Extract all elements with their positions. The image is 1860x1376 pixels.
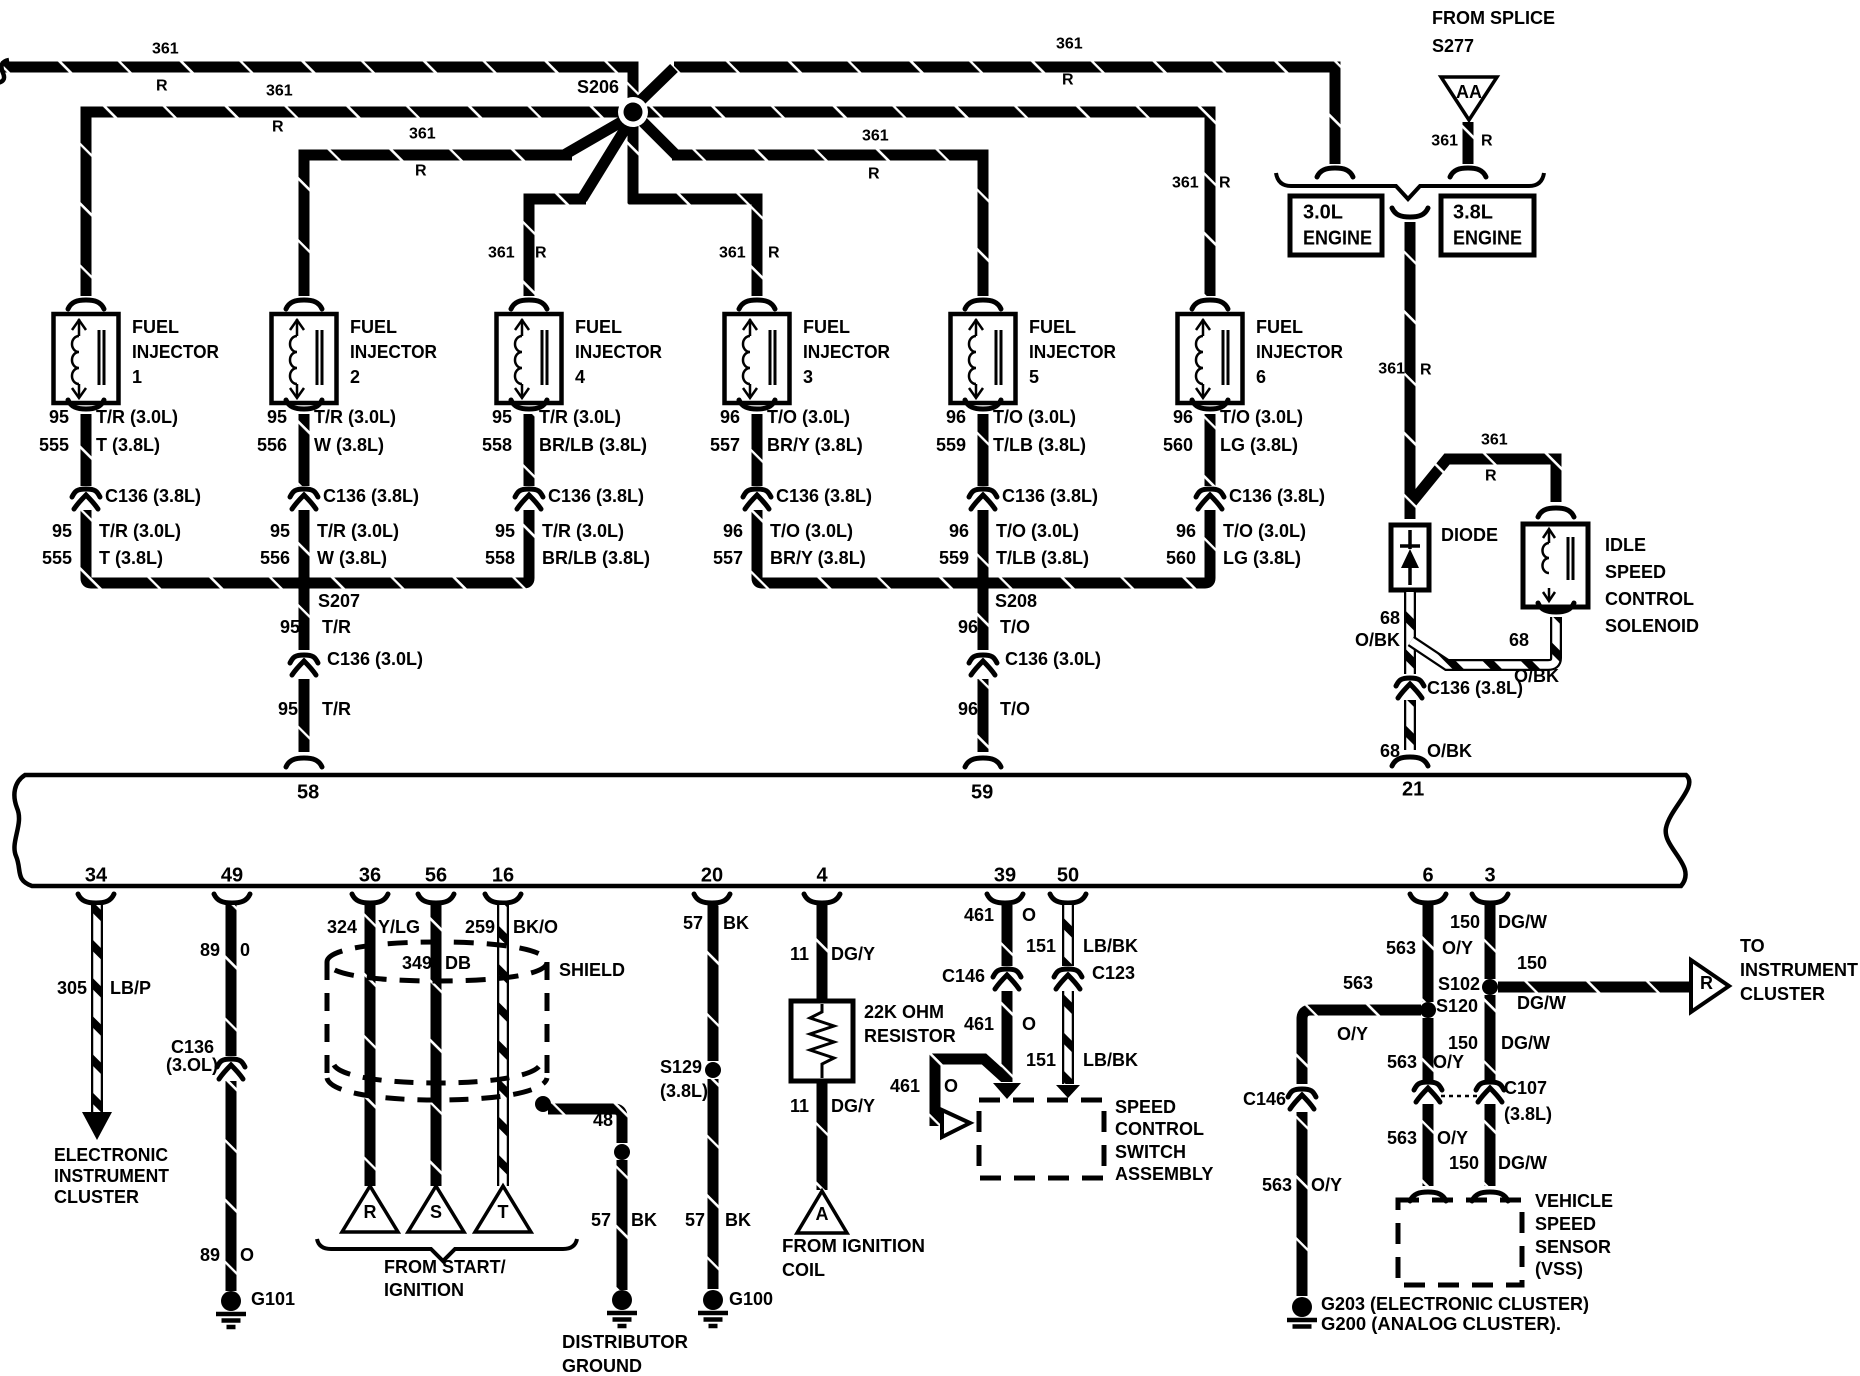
svg-text:INJECTOR: INJECTOR: [575, 342, 662, 362]
svg-text:C107: C107: [1504, 1078, 1547, 1098]
svg-text:T/LB (3.8L): T/LB (3.8L): [996, 548, 1089, 568]
svg-text:556: 556: [257, 435, 287, 455]
svg-text:FUEL: FUEL: [803, 317, 850, 337]
svg-text:16: 16: [492, 864, 514, 886]
svg-text:4: 4: [575, 367, 585, 387]
svg-text:SENSOR: SENSOR: [1535, 1237, 1611, 1257]
svg-text:BR/LB (3.8L): BR/LB (3.8L): [539, 435, 647, 455]
svg-text:T/O (3.0L): T/O (3.0L): [1223, 521, 1306, 541]
svg-text:S129: S129: [660, 1057, 702, 1077]
svg-text:68: 68: [1380, 741, 1400, 761]
svg-text:INJECTOR: INJECTOR: [1256, 342, 1343, 362]
svg-text:BR/LB (3.8L): BR/LB (3.8L): [542, 548, 650, 568]
svg-text:BK: BK: [725, 1210, 751, 1230]
svg-text:95: 95: [270, 521, 290, 541]
svg-text:559: 559: [939, 548, 969, 568]
svg-text:361: 361: [1431, 133, 1458, 150]
svg-text:95: 95: [278, 699, 298, 719]
svg-text:361: 361: [862, 128, 889, 145]
svg-text:96: 96: [958, 699, 978, 719]
svg-text:1: 1: [132, 367, 142, 387]
svg-text:36: 36: [359, 864, 381, 886]
svg-text:C146: C146: [1243, 1089, 1286, 1109]
svg-text:T/O (3.0L): T/O (3.0L): [993, 407, 1076, 427]
svg-text:FUEL: FUEL: [1029, 317, 1076, 337]
svg-text:95: 95: [49, 407, 69, 427]
svg-text:R: R: [868, 166, 880, 183]
svg-text:563: 563: [1262, 1175, 1292, 1195]
svg-text:FROM START/: FROM START/: [384, 1257, 506, 1277]
svg-text:150: 150: [1517, 953, 1547, 973]
svg-text:3.0L: 3.0L: [1303, 201, 1343, 223]
svg-text:48: 48: [593, 1110, 613, 1130]
svg-text:361: 361: [1056, 36, 1083, 53]
svg-text:LB/P: LB/P: [110, 978, 151, 998]
svg-text:56: 56: [425, 864, 447, 886]
svg-text:G101: G101: [251, 1289, 295, 1309]
svg-text:57: 57: [591, 1210, 611, 1230]
svg-text:O/Y: O/Y: [1337, 1024, 1368, 1044]
svg-text:557: 557: [713, 548, 743, 568]
svg-text:DG/Y: DG/Y: [831, 944, 875, 964]
svg-text:DB: DB: [445, 953, 471, 973]
svg-text:559: 559: [936, 435, 966, 455]
svg-text:DG/W: DG/W: [1517, 993, 1566, 1013]
svg-text:(VSS): (VSS): [1535, 1259, 1583, 1279]
svg-text:R: R: [272, 119, 284, 136]
svg-text:DIODE: DIODE: [1441, 525, 1498, 545]
svg-text:G203 (ELECTRONIC CLUSTER): G203 (ELECTRONIC CLUSTER): [1321, 1294, 1589, 1314]
svg-text:558: 558: [482, 435, 512, 455]
svg-text:A: A: [816, 1204, 829, 1224]
svg-text:96: 96: [723, 521, 743, 541]
svg-text:0: 0: [240, 940, 250, 960]
svg-text:59: 59: [971, 781, 993, 803]
svg-text:20: 20: [701, 864, 723, 886]
svg-text:VEHICLE: VEHICLE: [1535, 1191, 1613, 1211]
svg-text:R: R: [1485, 468, 1497, 485]
svg-text:INJECTOR: INJECTOR: [132, 342, 219, 362]
svg-text:T/O: T/O: [1000, 617, 1030, 637]
svg-text:CLUSTER: CLUSTER: [1740, 984, 1825, 1004]
svg-text:INJECTOR: INJECTOR: [1029, 342, 1116, 362]
svg-text:2: 2: [350, 367, 360, 387]
svg-text:INJECTOR: INJECTOR: [350, 342, 437, 362]
svg-text:O: O: [1022, 1014, 1036, 1034]
svg-text:(3.8L): (3.8L): [1504, 1104, 1552, 1124]
svg-text:LG (3.8L): LG (3.8L): [1223, 548, 1301, 568]
svg-text:T/O (3.0L): T/O (3.0L): [767, 407, 850, 427]
svg-text:R: R: [364, 1202, 377, 1222]
svg-text:O/BK: O/BK: [1514, 666, 1559, 686]
svg-text:57: 57: [683, 913, 703, 933]
svg-text:(3.8L): (3.8L): [660, 1081, 708, 1101]
svg-text:G200 (ANALOG CLUSTER).: G200 (ANALOG CLUSTER).: [1321, 1314, 1561, 1334]
svg-text:68: 68: [1509, 630, 1529, 650]
svg-text:O/Y: O/Y: [1442, 938, 1473, 958]
svg-text:R: R: [1420, 362, 1432, 379]
svg-text:361: 361: [1172, 175, 1199, 192]
svg-text:CLUSTER: CLUSTER: [54, 1187, 139, 1207]
svg-text:T/O: T/O: [1000, 699, 1030, 719]
svg-text:ENGINE: ENGINE: [1303, 227, 1372, 249]
svg-text:11: 11: [790, 944, 809, 964]
svg-text:S208: S208: [995, 591, 1037, 611]
svg-text:563: 563: [1343, 973, 1373, 993]
svg-text:R: R: [535, 245, 547, 262]
svg-text:T/R (3.0L): T/R (3.0L): [539, 407, 621, 427]
svg-text:CONTROL: CONTROL: [1115, 1119, 1204, 1139]
svg-text:SPEED: SPEED: [1535, 1214, 1596, 1234]
svg-text:BR/Y (3.8L): BR/Y (3.8L): [770, 548, 866, 568]
svg-text:ASSEMBLY: ASSEMBLY: [1115, 1164, 1213, 1184]
svg-text:T/O (3.0L): T/O (3.0L): [996, 521, 1079, 541]
svg-text:FROM SPLICE: FROM SPLICE: [1432, 8, 1555, 28]
svg-text:CONTROL: CONTROL: [1605, 589, 1694, 609]
svg-text:LG (3.8L): LG (3.8L): [1220, 435, 1298, 455]
svg-text:FUEL: FUEL: [132, 317, 179, 337]
svg-text:SWITCH: SWITCH: [1115, 1142, 1186, 1162]
svg-text:O/Y: O/Y: [1437, 1128, 1468, 1148]
svg-text:461: 461: [964, 905, 994, 925]
svg-text:563: 563: [1387, 1128, 1417, 1148]
svg-text:50: 50: [1057, 864, 1079, 886]
svg-text:INJECTOR: INJECTOR: [803, 342, 890, 362]
svg-text:560: 560: [1163, 435, 1193, 455]
svg-text:563: 563: [1386, 938, 1416, 958]
svg-text:T/R (3.0L): T/R (3.0L): [317, 521, 399, 541]
svg-text:G100: G100: [729, 1289, 773, 1309]
svg-text:AA: AA: [1456, 82, 1482, 102]
svg-text:461: 461: [890, 1076, 920, 1096]
svg-text:49: 49: [221, 864, 243, 886]
svg-text:95: 95: [280, 617, 300, 637]
svg-text:SOLENOID: SOLENOID: [1605, 616, 1699, 636]
svg-text:RESISTOR: RESISTOR: [864, 1026, 956, 1046]
svg-text:DG/W: DG/W: [1498, 1153, 1547, 1173]
svg-text:DG/Y: DG/Y: [831, 1096, 875, 1116]
svg-text:SHIELD: SHIELD: [559, 960, 625, 980]
svg-text:C136 (3.8L): C136 (3.8L): [1229, 486, 1325, 506]
svg-text:555: 555: [42, 548, 72, 568]
svg-text:89: 89: [200, 1245, 220, 1265]
svg-text:151: 151: [1026, 936, 1056, 956]
svg-text:DG/W: DG/W: [1498, 912, 1547, 932]
svg-text:C136 (3.8L): C136 (3.8L): [105, 486, 201, 506]
svg-text:O/Y: O/Y: [1433, 1052, 1464, 1072]
svg-text:S277: S277: [1432, 36, 1474, 56]
svg-text:W (3.8L): W (3.8L): [317, 548, 387, 568]
svg-text:ELECTRONIC: ELECTRONIC: [54, 1145, 168, 1165]
svg-text:C136 (3.8L): C136 (3.8L): [1002, 486, 1098, 506]
svg-text:C136 (3.8L): C136 (3.8L): [776, 486, 872, 506]
svg-text:T (3.8L): T (3.8L): [99, 548, 163, 568]
svg-text:O: O: [1022, 905, 1036, 925]
svg-text:C146: C146: [942, 966, 985, 986]
svg-text:LB/BK: LB/BK: [1083, 936, 1138, 956]
svg-text:S206: S206: [577, 77, 619, 97]
svg-text:IDLE: IDLE: [1605, 535, 1646, 555]
svg-text:R: R: [415, 163, 427, 180]
svg-text:O: O: [944, 1076, 958, 1096]
svg-text:361: 361: [152, 41, 179, 58]
svg-text:R: R: [156, 78, 168, 95]
svg-text:558: 558: [485, 548, 515, 568]
svg-text:95: 95: [267, 407, 287, 427]
svg-text:57: 57: [685, 1210, 705, 1230]
svg-text:R: R: [768, 245, 780, 262]
svg-text:461: 461: [964, 1014, 994, 1034]
svg-text:ENGINE: ENGINE: [1453, 227, 1522, 249]
svg-text:21: 21: [1402, 778, 1424, 800]
svg-text:96: 96: [949, 521, 969, 541]
svg-text:T: T: [498, 1202, 509, 1222]
svg-text:556: 556: [260, 548, 290, 568]
svg-text:INSTRUMENT: INSTRUMENT: [54, 1166, 169, 1186]
svg-text:T/O (3.0L): T/O (3.0L): [1220, 407, 1303, 427]
svg-text:T/R (3.0L): T/R (3.0L): [96, 407, 178, 427]
svg-text:3: 3: [1484, 864, 1495, 886]
svg-text:S120: S120: [1436, 996, 1478, 1016]
svg-text:LB/BK: LB/BK: [1083, 1050, 1138, 1070]
svg-text:T/R (3.0L): T/R (3.0L): [314, 407, 396, 427]
svg-text:324: 324: [327, 917, 357, 937]
svg-text:DG/W: DG/W: [1501, 1033, 1550, 1053]
svg-text:361: 361: [1378, 361, 1405, 378]
svg-text:S: S: [430, 1202, 442, 1222]
svg-text:4: 4: [816, 864, 828, 886]
svg-text:96: 96: [1173, 407, 1193, 427]
svg-text:89: 89: [200, 940, 220, 960]
svg-text:563: 563: [1387, 1052, 1417, 1072]
svg-text:22K OHM: 22K OHM: [864, 1002, 944, 1022]
svg-text:5: 5: [1029, 367, 1039, 387]
svg-text:C136: C136: [171, 1037, 214, 1057]
svg-text:361: 361: [266, 83, 293, 100]
svg-text:34: 34: [85, 864, 108, 886]
svg-text:560: 560: [1166, 548, 1196, 568]
svg-text:349: 349: [402, 953, 432, 973]
svg-text:96: 96: [1176, 521, 1196, 541]
svg-text:TO: TO: [1740, 936, 1765, 956]
svg-text:361: 361: [1481, 432, 1508, 449]
svg-text:Y/LG: Y/LG: [378, 917, 420, 937]
svg-text:O: O: [240, 1245, 254, 1265]
svg-text:361: 361: [719, 245, 746, 262]
svg-text:150: 150: [1448, 1033, 1478, 1053]
svg-text:BK: BK: [723, 913, 749, 933]
svg-text:BR/Y (3.8L): BR/Y (3.8L): [767, 435, 863, 455]
svg-text:BK: BK: [631, 1210, 657, 1230]
svg-text:FUEL: FUEL: [350, 317, 397, 337]
svg-text:FUEL: FUEL: [575, 317, 622, 337]
svg-text:S102: S102: [1438, 974, 1480, 994]
svg-text:C136 (3.8L): C136 (3.8L): [548, 486, 644, 506]
svg-text:DISTRIBUTOR: DISTRIBUTOR: [562, 1332, 688, 1352]
svg-text:150: 150: [1450, 912, 1480, 932]
svg-text:150: 150: [1449, 1153, 1479, 1173]
svg-text:O/BK: O/BK: [1427, 741, 1472, 761]
svg-text:6: 6: [1422, 864, 1433, 886]
svg-text:58: 58: [297, 781, 319, 803]
svg-text:R: R: [1062, 72, 1074, 89]
svg-text:39: 39: [994, 864, 1016, 886]
svg-text:IGNITION: IGNITION: [384, 1280, 464, 1300]
svg-text:O/BK: O/BK: [1355, 630, 1400, 650]
svg-text:3: 3: [803, 367, 813, 387]
svg-text:S207: S207: [318, 591, 360, 611]
svg-text:555: 555: [39, 435, 69, 455]
svg-text:11: 11: [790, 1096, 809, 1116]
svg-text:W (3.8L): W (3.8L): [314, 435, 384, 455]
svg-text:95: 95: [492, 407, 512, 427]
svg-text:FUEL: FUEL: [1256, 317, 1303, 337]
svg-text:95: 95: [495, 521, 515, 541]
svg-text:361: 361: [488, 245, 515, 262]
svg-text:INSTRUMENT: INSTRUMENT: [1740, 960, 1858, 980]
svg-text:T/R (3.0L): T/R (3.0L): [542, 521, 624, 541]
svg-text:FROM IGNITION: FROM IGNITION: [782, 1236, 925, 1256]
svg-text:T/R: T/R: [322, 617, 351, 637]
svg-text:C123: C123: [1092, 963, 1135, 983]
svg-text:C136 (3.0L): C136 (3.0L): [327, 649, 423, 669]
svg-text:C136 (3.0L): C136 (3.0L): [1005, 649, 1101, 669]
svg-text:3.8L: 3.8L: [1453, 201, 1493, 223]
svg-text:6: 6: [1256, 367, 1266, 387]
svg-text:T/O (3.0L): T/O (3.0L): [770, 521, 853, 541]
svg-text:557: 557: [710, 435, 740, 455]
svg-text:T/R: T/R: [322, 699, 351, 719]
svg-text:151: 151: [1026, 1050, 1056, 1070]
svg-text:C136 (3.8L): C136 (3.8L): [1427, 678, 1523, 698]
svg-text:T/LB (3.8L): T/LB (3.8L): [993, 435, 1086, 455]
svg-text:259: 259: [465, 917, 495, 937]
svg-text:R: R: [1700, 973, 1713, 993]
svg-text:COIL: COIL: [782, 1260, 825, 1280]
svg-text:R: R: [1219, 175, 1231, 192]
svg-text:O/Y: O/Y: [1311, 1175, 1342, 1195]
svg-text:R: R: [1481, 133, 1493, 150]
svg-text:T/R (3.0L): T/R (3.0L): [99, 521, 181, 541]
svg-text:68: 68: [1380, 608, 1400, 628]
svg-text:GROUND: GROUND: [562, 1356, 642, 1376]
svg-text:(3.OL): (3.OL): [166, 1055, 218, 1075]
svg-text:SPEED: SPEED: [1605, 562, 1666, 582]
svg-text:96: 96: [720, 407, 740, 427]
svg-text:95: 95: [52, 521, 72, 541]
svg-text:96: 96: [946, 407, 966, 427]
svg-text:BK/O: BK/O: [513, 917, 558, 937]
svg-text:C136 (3.8L): C136 (3.8L): [323, 486, 419, 506]
svg-text:T (3.8L): T (3.8L): [96, 435, 160, 455]
svg-text:SPEED: SPEED: [1115, 1097, 1176, 1117]
svg-text:305: 305: [57, 978, 87, 998]
svg-text:96: 96: [958, 617, 978, 637]
svg-text:361: 361: [409, 126, 436, 143]
